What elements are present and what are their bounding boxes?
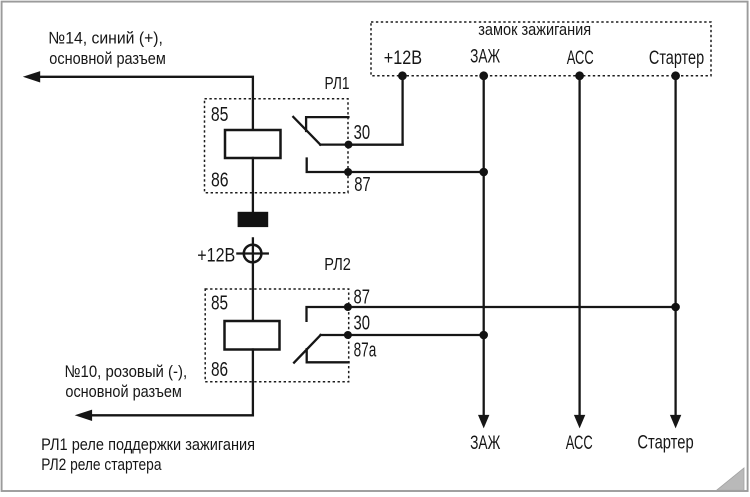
- РЛ2 pin 30 dot: [344, 331, 352, 339]
- ignition lock (замок зажигания) dashed box: [371, 22, 711, 76]
- wire W12: РЛ2 pin 30 line to ЗАЖ column: [321, 334, 484, 336]
- +12В supply symbol (circle with cross): [237, 245, 267, 263]
- svg-text:№10, розовый (-),: №10, розовый (-),: [65, 363, 188, 381]
- node №14 harness label: [48, 29, 165, 68]
- РЛ1 armature pin 30: [293, 117, 320, 145]
- svg-text:85: 85: [211, 103, 229, 125]
- wire W2: +12В terminal down and left to РЛ1 pin 30: [349, 76, 403, 145]
- arrowhead АСС: [574, 415, 585, 429]
- svg-text:замок зажигания: замок зажигания: [478, 21, 591, 39]
- svg-text:Стартер: Стартер: [649, 47, 704, 68]
- wire W1: №14 feed to РЛ1 coil pin 85: [39, 77, 253, 130]
- РЛ1 coil: [225, 130, 281, 158]
- arrowhead Стартер: [670, 415, 681, 429]
- svg-text:№14, синий (+),: №14, синий (+),: [48, 29, 163, 48]
- svg-text:РЛ1 реле поддержки зажигания: РЛ1 реле поддержки зажигания: [41, 436, 255, 454]
- svg-text:87: 87: [354, 173, 370, 196]
- node №10 harness label: [65, 363, 188, 401]
- svg-text:ЗАЖ: ЗАЖ: [470, 432, 501, 454]
- РЛ2 armature pin 30: [294, 335, 321, 363]
- wire W6: РЛ1 coil pin 86 down to splice: [252, 158, 254, 212]
- svg-text:РЛ2 реле стартера: РЛ2 реле стартера: [41, 456, 162, 475]
- svg-text:85: 85: [211, 291, 228, 313]
- svg-text:Стартер: Стартер: [637, 432, 693, 453]
- junction: РЛ2-30 to ЗАЖ: [479, 331, 488, 340]
- wire W10: РЛ2 coil pin 86 down/left to №10 arrow: [92, 350, 253, 416]
- wire W5: Стартер column down to arrow: [674, 76, 676, 416]
- svg-text:+12В: +12В: [197, 244, 235, 266]
- terminal dot АСС: [575, 71, 584, 80]
- arrowhead №14: [23, 71, 40, 82]
- arrowhead №10: [75, 410, 92, 421]
- svg-text:87а: 87а: [354, 339, 377, 361]
- relay РЛ2 dashed body: [205, 289, 349, 382]
- junction: РЛ1-87 to ЗАЖ: [479, 168, 488, 177]
- wire W7: РЛ1 pin 30 line: [320, 143, 402, 145]
- svg-text:ЗАЖ: ЗАЖ: [470, 45, 501, 67]
- РЛ2 fixed contact pin 87 and wire W11 to Стартер column: [307, 307, 676, 321]
- wire W4: АСС column down to arrow: [578, 76, 580, 416]
- junction: РЛ2-87 to Стартер: [671, 303, 680, 312]
- arrowhead ЗАЖ: [478, 415, 489, 429]
- svg-text:РЛ2: РЛ2: [324, 255, 351, 275]
- svg-text:86: 86: [211, 169, 229, 191]
- svg-text:основной разъем: основной разъем: [65, 383, 181, 401]
- svg-text:основной разъем: основной разъем: [49, 50, 165, 68]
- wire W3: ЗАЖ column down to arrow: [483, 76, 485, 416]
- terminal dot +12В: [398, 71, 407, 80]
- relay РЛ1 dashed body: [205, 99, 349, 193]
- wire W9: +12В supply down to РЛ2 coil pin 85: [252, 238, 254, 321]
- svg-text:АСС: АСС: [566, 432, 593, 453]
- РЛ1 pin 30 dot: [345, 141, 353, 149]
- svg-text:87: 87: [354, 285, 370, 308]
- svg-text:30: 30: [354, 311, 371, 334]
- РЛ1 fixed contact (upper): [306, 117, 348, 131]
- svg-text:АСС: АСС: [567, 48, 594, 69]
- РЛ1 fixed contact pin 87 and wire W8 to ЗАЖ column: [307, 159, 484, 173]
- svg-text:30: 30: [354, 121, 371, 144]
- svg-text:+12В: +12В: [384, 47, 422, 69]
- svg-text:РЛ1: РЛ1: [325, 75, 350, 94]
- svg-text:86: 86: [211, 358, 228, 380]
- РЛ1 pin 87 dot: [344, 168, 352, 176]
- terminal dot Стартер: [671, 71, 680, 80]
- РЛ2 coil: [225, 321, 280, 350]
- splice connector (black block): [238, 212, 269, 227]
- РЛ2 pin 87 dot: [344, 303, 352, 311]
- РЛ2 fixed contact pin 87а: [307, 349, 349, 362]
- terminal dot ЗАЖ: [479, 71, 488, 80]
